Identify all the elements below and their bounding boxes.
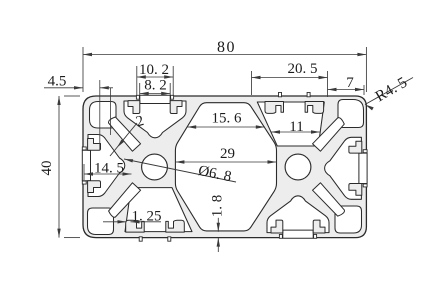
bottom-left closed channel (125, 188, 192, 242)
svg-text:8. 2: 8. 2 (144, 78, 167, 94)
top-right closed channel (257, 92, 324, 146)
right T-slot (325, 137, 368, 199)
leader 2 (110, 123, 137, 156)
leader R4.5 (365, 78, 413, 105)
svg-text:14. 5: 14. 5 (94, 161, 124, 177)
top-left corner cavity (90, 102, 117, 129)
dim 7 (363, 85, 365, 95)
left boss NW channel (108, 117, 140, 151)
top T-slot (124, 95, 186, 138)
svg-text:4.5: 4.5 (48, 74, 67, 90)
leader dia 6.8 (124, 159, 236, 182)
svg-text:11: 11 (289, 119, 303, 135)
left T-slot (82, 135, 125, 197)
dim 14.5 (83, 164, 85, 180)
svg-text:10. 2: 10. 2 (139, 62, 169, 78)
dim 15.6 (187, 126, 265, 128)
profile outer body (83, 96, 366, 238)
svg-text:80: 80 (217, 39, 236, 56)
dim 11 (271, 131, 320, 133)
svg-text:1. 8: 1. 8 (210, 195, 226, 218)
dim 1.25 (103, 221, 127, 223)
dim 1.8 (217, 218, 219, 232)
left boss SW channel (109, 183, 141, 217)
right boss SE channel (313, 183, 345, 216)
bottom T-slot (267, 196, 329, 239)
dim 80 (82, 47, 84, 92)
dim 10.2 (136, 66, 138, 96)
right boss NE channel (313, 118, 345, 152)
dim 20.5 (251, 71, 253, 95)
svg-text:40: 40 (39, 161, 55, 176)
dim 8.2 (139, 83, 141, 95)
svg-text:7: 7 (346, 75, 354, 91)
bottom-left corner cavity (88, 208, 114, 235)
top-right corner cavity (338, 100, 364, 128)
dim 4.5 (99, 80, 101, 150)
svg-text:1. 25: 1. 25 (132, 209, 162, 225)
left hole (142, 154, 168, 180)
central cavity (175, 103, 276, 231)
right hole (285, 154, 311, 180)
dim 40 (64, 95, 80, 97)
bottom-right corner cavity (335, 206, 362, 233)
dim 29 (175, 161, 276, 163)
svg-text:29: 29 (220, 146, 235, 162)
svg-text:20. 5: 20. 5 (288, 61, 318, 77)
svg-text:15. 6: 15. 6 (212, 111, 243, 127)
